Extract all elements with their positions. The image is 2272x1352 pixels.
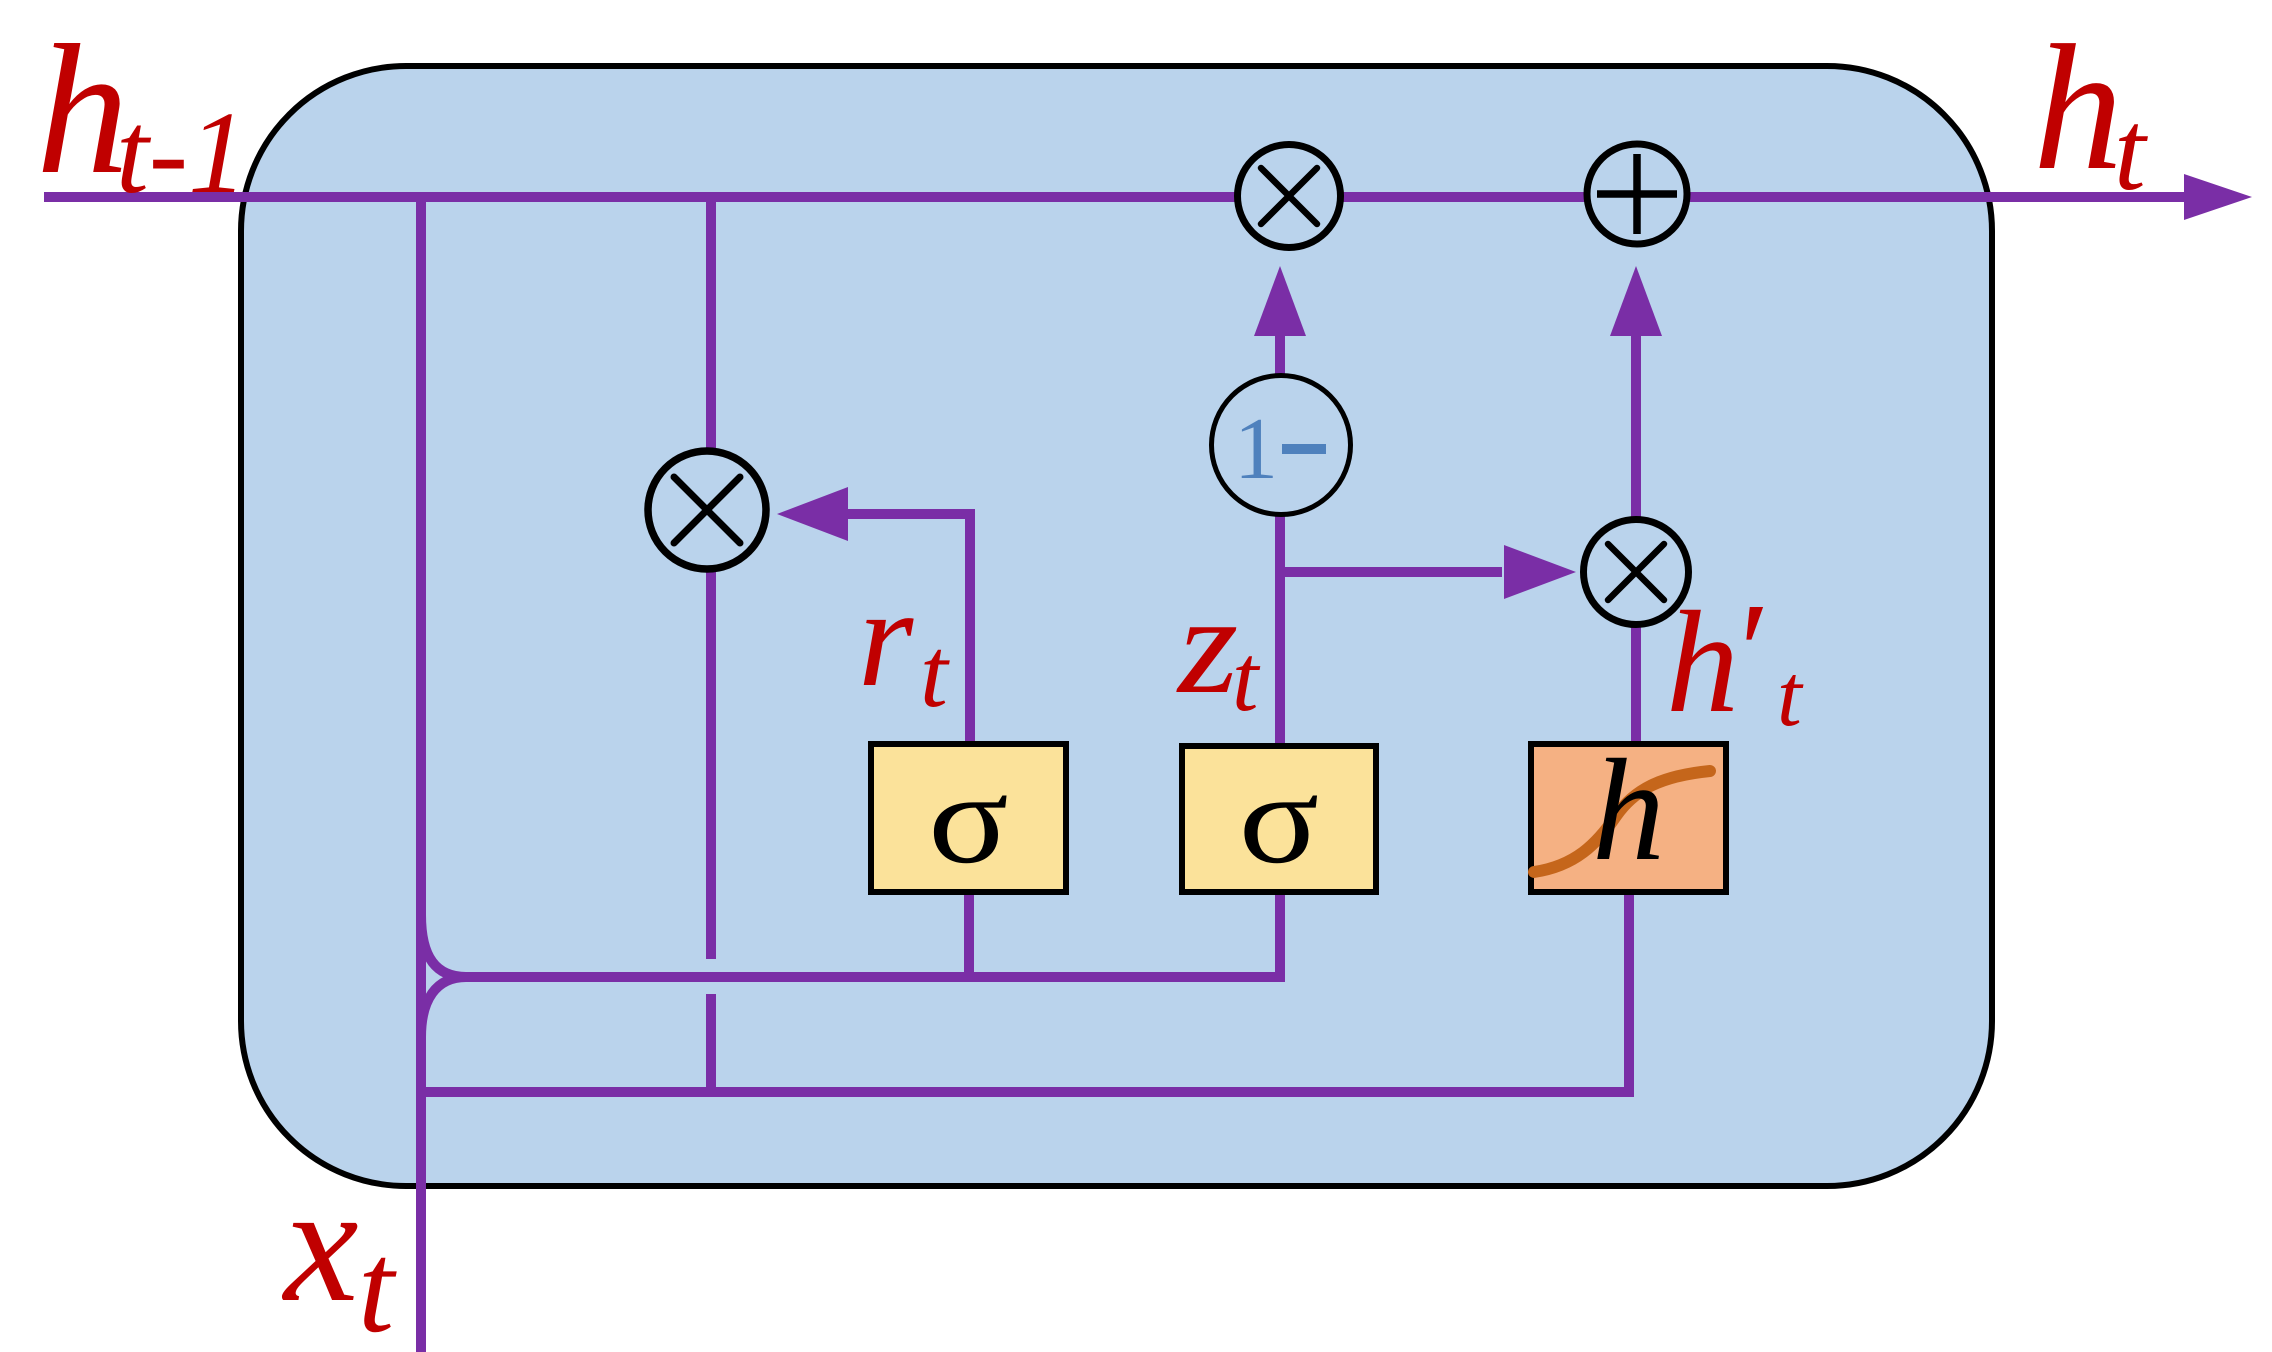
svg-text:t-1: t-1 [116, 87, 247, 218]
svg-text:t: t [358, 1216, 397, 1352]
svg-text:t: t [1777, 647, 1804, 745]
svg-text:1: 1 [1234, 401, 1278, 498]
svg-text:σ: σ [928, 747, 1009, 891]
svg-text:t: t [1232, 625, 1261, 731]
svg-text:z: z [1176, 567, 1238, 723]
svg-text:′: ′ [1731, 575, 1764, 729]
svg-text:h: h [1592, 729, 1665, 891]
svg-text:t: t [2114, 87, 2148, 214]
svg-text:t: t [920, 617, 950, 728]
svg-text:x: x [281, 1151, 359, 1337]
svg-text:σ: σ [1239, 747, 1320, 891]
svg-text:r: r [858, 558, 914, 716]
svg-text:h: h [2033, 8, 2123, 207]
svg-text:h: h [1666, 581, 1739, 743]
